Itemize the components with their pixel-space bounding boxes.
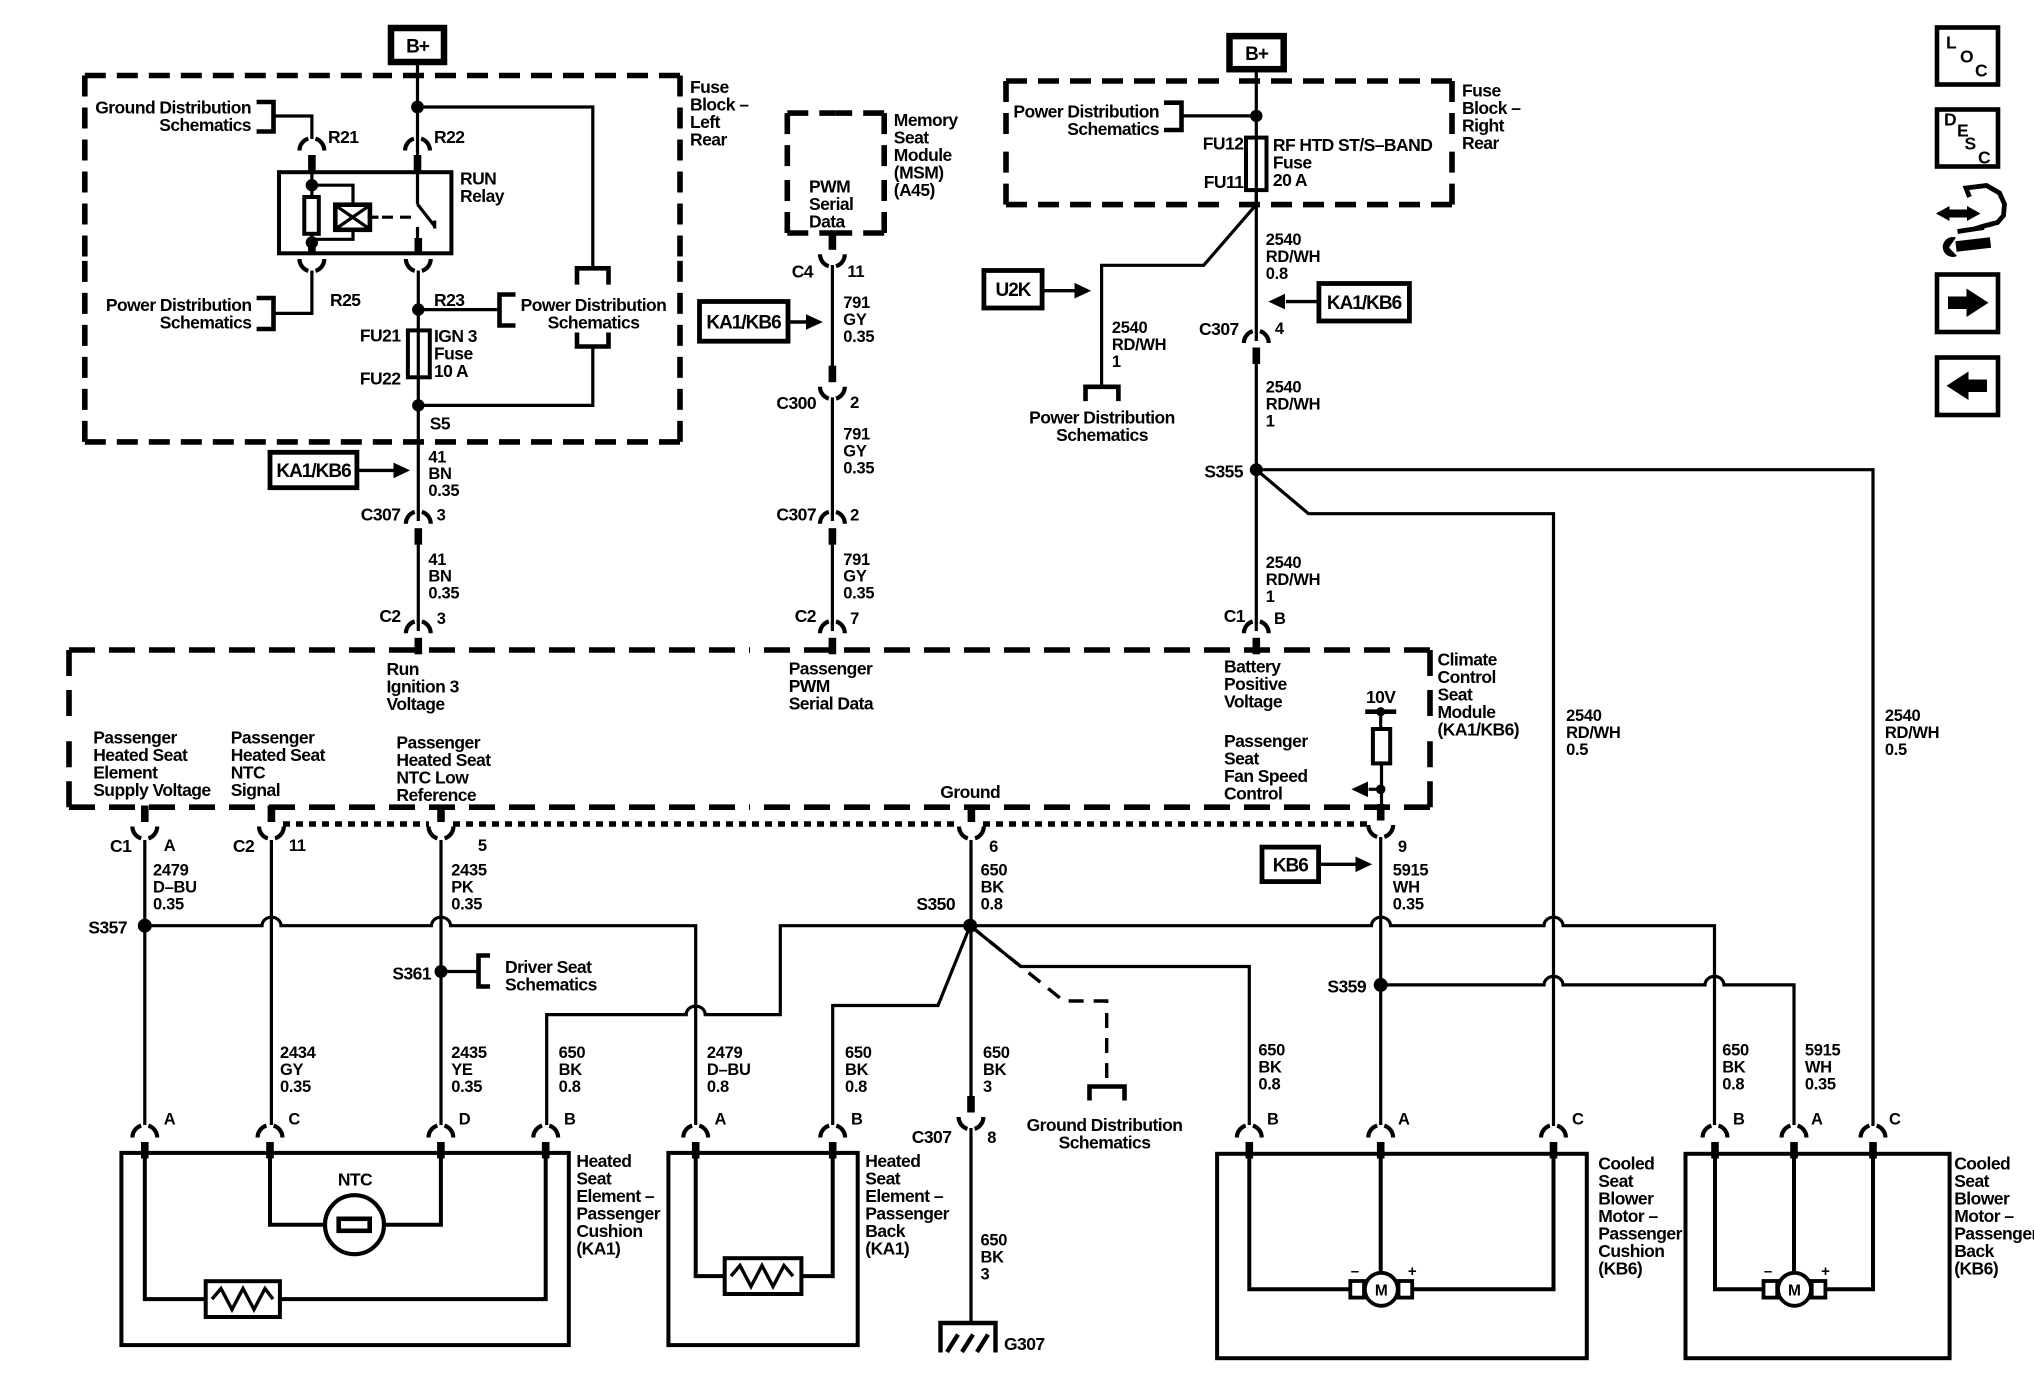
svg-text:S5: S5 (430, 414, 451, 434)
wire bracket to node (1182, 114, 1257, 117)
svg-text:650: 650 (559, 1044, 586, 1062)
connector C300 pin 2 (820, 366, 845, 399)
svg-text:R23: R23 (434, 290, 465, 310)
bracket ref power distribution (1164, 103, 1182, 130)
svg-text:B+: B+ (406, 37, 430, 58)
splice S357 (138, 919, 152, 933)
svg-text:0.35: 0.35 (451, 1078, 482, 1096)
connector R23 (406, 238, 431, 271)
svg-text:R22: R22 (434, 127, 465, 147)
svg-text:650: 650 (983, 1044, 1010, 1062)
arrow U2K to wire (1042, 289, 1076, 292)
cooled seat blower motor cushion box (1217, 1154, 1587, 1358)
svg-text:(A45): (A45) (894, 180, 935, 200)
bracket ref power distribution (bottom) (577, 333, 609, 347)
splice box KA1/KB6 right (1319, 284, 1410, 322)
svg-text:RD/WH: RD/WH (1266, 571, 1320, 589)
svg-text:BK: BK (845, 1061, 869, 1079)
connector box2 pin B (820, 1126, 845, 1159)
svg-text:B: B (851, 1111, 863, 1129)
svg-text:WH: WH (1393, 879, 1420, 897)
svg-text:7: 7 (850, 610, 859, 628)
svg-text:5915: 5915 (1805, 1042, 1841, 1060)
svg-text:2435: 2435 (451, 1044, 487, 1062)
svg-text:R21: R21 (328, 127, 359, 147)
svg-text:1: 1 (1266, 588, 1275, 606)
svg-text:C: C (1889, 1111, 1901, 1129)
connector R25 (300, 238, 325, 271)
svg-text:S: S (1965, 134, 1976, 154)
svg-text:11: 11 (847, 263, 864, 281)
splice S361 (435, 965, 448, 978)
svg-text:Schematics: Schematics (548, 313, 641, 333)
bracket ref ground distribution (1090, 1087, 1125, 1101)
svg-text:Signal: Signal (231, 780, 280, 800)
svg-text:A: A (715, 1111, 727, 1129)
wire coil parallel branch (312, 185, 353, 205)
memory seat module dashed box (787, 110, 835, 116)
wire C2 11 down to box1 C (270, 840, 273, 1125)
wire C307 to C2 (831, 544, 834, 631)
svg-text:–: – (1351, 1263, 1359, 1280)
svg-text:0.8: 0.8 (1722, 1076, 1744, 1094)
svg-text:2435: 2435 (451, 862, 487, 880)
svg-text:C2: C2 (795, 606, 817, 626)
svg-text:Schematics: Schematics (1067, 119, 1160, 139)
svg-text:10 A: 10 A (434, 361, 469, 381)
svg-text:L: L (1946, 33, 1957, 53)
node (306, 179, 318, 191)
svg-text:S355: S355 (1204, 462, 1243, 482)
svg-text:B: B (564, 1111, 576, 1129)
svg-text:0.35: 0.35 (1393, 896, 1424, 914)
wire S355 diag to box3 C (1256, 470, 1553, 1126)
svg-text:KA1/KB6: KA1/KB6 (706, 313, 781, 334)
svg-text:(KB6): (KB6) (1954, 1259, 1998, 1279)
svg-text:D–BU: D–BU (707, 1061, 751, 1079)
connector R22 (405, 139, 430, 172)
svg-text:2479: 2479 (153, 862, 189, 880)
svg-text:5915: 5915 (1393, 862, 1429, 880)
connector box4 pin B (1703, 1126, 1728, 1159)
svg-text:C2: C2 (379, 606, 401, 626)
connector box4 pin A (1782, 1126, 1807, 1159)
wire ground box1 B to S350 (547, 926, 971, 1125)
svg-text:0.8: 0.8 (845, 1078, 867, 1096)
svg-text:RD/WH: RD/WH (1885, 724, 1939, 742)
svg-text:2540: 2540 (1266, 554, 1302, 572)
relay coil branch wire (310, 172, 313, 197)
wire fuse to C307 (1255, 190, 1258, 341)
svg-text:(KA1): (KA1) (576, 1239, 620, 1259)
svg-text:BK: BK (1722, 1059, 1746, 1077)
svg-text:650: 650 (981, 1232, 1008, 1250)
svg-text:791: 791 (843, 551, 870, 569)
svg-text:D: D (459, 1111, 471, 1129)
svg-text:BK: BK (981, 1249, 1005, 1267)
svg-text:Reference: Reference (396, 785, 476, 805)
relay actuator dashed link (370, 216, 379, 219)
svg-text:0.8: 0.8 (1258, 1076, 1280, 1094)
arrow KA1/KB6 left (1286, 300, 1319, 303)
svg-text:U2K: U2K (995, 280, 1031, 301)
svg-text:791: 791 (843, 426, 870, 444)
svg-text:2540: 2540 (1266, 379, 1302, 397)
svg-text:BK: BK (981, 879, 1005, 897)
svg-text:S357: S357 (88, 918, 127, 938)
node below fuse (412, 399, 424, 411)
svg-text:0.35: 0.35 (451, 896, 482, 914)
motor blower back (1764, 1281, 1778, 1298)
wire ground S350 to box3 B (970, 926, 1249, 1125)
connector C1 pin A (module) (132, 806, 157, 839)
arrow to wire (788, 320, 808, 323)
svg-text:Voltage: Voltage (1224, 692, 1283, 712)
arrow KB6 to wire (1319, 863, 1357, 866)
svg-text:2540: 2540 (1266, 231, 1302, 249)
fuse FU21 IGN3 (408, 330, 430, 377)
svg-text:BN: BN (428, 465, 451, 483)
svg-text:0.35: 0.35 (280, 1078, 311, 1096)
svg-text:FU22: FU22 (360, 369, 401, 389)
svg-text:Supply Voltage: Supply Voltage (93, 780, 211, 800)
resistor heater element back (725, 1258, 802, 1294)
svg-text:FU11: FU11 (1204, 172, 1244, 192)
svg-text:GY: GY (843, 311, 867, 329)
svg-text:+: + (1821, 1263, 1830, 1280)
connector box3 pin C (1541, 1126, 1566, 1159)
svg-text:C1: C1 (110, 836, 132, 856)
wire bracket to R21 (274, 116, 312, 139)
svg-text:Data: Data (809, 212, 846, 232)
svg-text:PK: PK (451, 879, 474, 897)
icon box LOC (1937, 28, 1998, 85)
svg-text:C: C (1975, 61, 1988, 81)
SEC7 bottom boxes (121, 1111, 2034, 1359)
node arrow fan speed control (1376, 785, 1386, 795)
svg-text:0.35: 0.35 (843, 460, 874, 478)
svg-text:0.5: 0.5 (1566, 741, 1588, 759)
connector C307 pin 3 (406, 512, 431, 545)
svg-text:4: 4 (1275, 320, 1285, 338)
svg-text:B+: B+ (1245, 44, 1269, 65)
SEC1 top-left (85, 28, 749, 654)
svg-text:A: A (164, 837, 176, 855)
svg-text:1: 1 (1112, 353, 1121, 371)
connector C307 pin 8 (959, 1096, 984, 1129)
svg-text:0.35: 0.35 (843, 328, 874, 346)
svg-text:C307: C307 (361, 505, 401, 525)
svg-text:(KA1): (KA1) (865, 1239, 909, 1259)
connector C307 pin 2 (820, 512, 845, 545)
svg-text:3: 3 (981, 1266, 990, 1284)
relay coil X-box (335, 205, 370, 230)
svg-text:KB6: KB6 (1273, 856, 1308, 877)
relay RUN box (279, 172, 451, 253)
wire C1A down to box1 A (143, 840, 146, 1125)
svg-text:C: C (288, 1111, 300, 1129)
wire C4 to C300 (831, 265, 834, 366)
wire element to B (801, 1159, 832, 1277)
bracket ref driver seat (479, 956, 491, 987)
connector R21 (300, 139, 325, 172)
node (1250, 110, 1262, 122)
wire node to PDS bracket (418, 308, 499, 311)
svg-text:650: 650 (1722, 1042, 1749, 1060)
wire ground box2 B to S350 (833, 926, 971, 1125)
svg-text:KA1/KB6: KA1/KB6 (1327, 293, 1402, 314)
svg-text:Voltage: Voltage (387, 694, 446, 714)
wire motor to C (1412, 1159, 1553, 1290)
wire B to motor (1715, 1159, 1764, 1290)
svg-text:2479: 2479 (707, 1044, 743, 1062)
wire diagonal branch (1102, 205, 1257, 387)
connector pin 9 fan control (module) (1368, 804, 1393, 837)
bracket ref power distribution (left of text) (500, 295, 516, 326)
svg-text:20 A: 20 A (1273, 170, 1308, 190)
heated seat element passenger cushion box (121, 1153, 568, 1345)
svg-text:0.8: 0.8 (559, 1078, 581, 1096)
svg-text:S359: S359 (1327, 977, 1366, 997)
wire ground dashed to ground distribution (970, 926, 1106, 1085)
svg-text:6: 6 (989, 838, 998, 856)
connector pin 6 ground (module) (959, 806, 984, 839)
wire motor to C (1826, 1159, 1874, 1290)
svg-text:Serial Data: Serial Data (789, 694, 874, 714)
svg-text:BK: BK (559, 1061, 583, 1079)
svg-text:B: B (1267, 1111, 1279, 1129)
connector C2 pin 3 (406, 621, 431, 654)
svg-text:5: 5 (478, 837, 487, 855)
svg-text:RD/WH: RD/WH (1266, 248, 1320, 266)
svg-text:Ground: Ground (940, 782, 1000, 802)
module climate control seat dashed box (69, 647, 750, 653)
fuse block right rear dashed box (1006, 78, 1229, 84)
cooled seat blower motor back box (1686, 1154, 1950, 1358)
wire S357 bus to box2 A (145, 917, 696, 1125)
svg-text:RD/WH: RD/WH (1566, 724, 1620, 742)
svg-text:BK: BK (1258, 1059, 1282, 1077)
svg-text:0.8: 0.8 (707, 1078, 729, 1096)
wire B+ down (416, 62, 419, 172)
splice S355 (1250, 463, 1263, 476)
svg-text:C307: C307 (776, 505, 816, 525)
svg-text:0.8: 0.8 (1266, 265, 1288, 283)
wire B to motor (1249, 1159, 1350, 1290)
connector pin 5 (module) (429, 806, 454, 839)
svg-text:NTC: NTC (338, 1170, 373, 1190)
svg-text:C: C (1572, 1111, 1584, 1129)
svg-text:GY: GY (280, 1061, 304, 1079)
svg-text:41: 41 (428, 551, 446, 569)
svg-text:C307: C307 (912, 1127, 952, 1147)
svg-text:G307: G307 (1004, 1334, 1045, 1354)
svg-text:C4: C4 (792, 262, 814, 282)
svg-text:FU21: FU21 (360, 326, 401, 346)
svg-text:BN: BN (428, 568, 451, 586)
fuse block left rear dashed box (85, 73, 382, 79)
wire B+ down (1255, 66, 1258, 205)
svg-text:11: 11 (289, 837, 306, 855)
SEC2 top-middle (700, 110, 959, 654)
svg-text:S361: S361 (392, 964, 431, 984)
wire S359 to box4 A (1381, 976, 1794, 1125)
svg-text:2540: 2540 (1885, 707, 1921, 725)
svg-text:A: A (164, 1111, 176, 1129)
wire to C2 (417, 544, 420, 631)
motor blower cushion (1350, 1281, 1364, 1298)
svg-text:Rear: Rear (690, 130, 727, 150)
svg-text:C2: C2 (233, 836, 255, 856)
ground G307 (941, 1323, 996, 1353)
bracket ref power distribution left (257, 298, 274, 329)
svg-text:B: B (1274, 610, 1286, 628)
icon box DESC (1937, 110, 1998, 167)
wire A to heater element (145, 1159, 206, 1300)
svg-text:8: 8 (987, 1129, 996, 1147)
svg-text:0.8: 0.8 (981, 896, 1003, 914)
svg-text:D–BU: D–BU (153, 879, 197, 897)
svg-text:FU12: FU12 (1203, 134, 1244, 154)
svg-text:B: B (1733, 1111, 1745, 1129)
heated seat element passenger back box (668, 1153, 857, 1345)
node junction at B+ wire (411, 101, 424, 114)
svg-text:Schematics: Schematics (505, 975, 598, 995)
svg-text:BK: BK (983, 1061, 1007, 1079)
wire bracket down to fuse node (418, 347, 593, 406)
svg-text:C307: C307 (1199, 319, 1239, 339)
resistor heater element cushion (206, 1281, 280, 1317)
connector C2 pin 11 (module) (259, 806, 284, 839)
svg-text:650: 650 (845, 1044, 872, 1062)
svg-text:650: 650 (981, 862, 1008, 880)
bracket ref ground distribution (257, 102, 274, 132)
wire element to B (280, 1159, 546, 1300)
wire ground bus S350 to box4 B (970, 917, 1714, 1125)
connector box1 pin D (429, 1126, 454, 1159)
svg-text:Schematics: Schematics (1056, 425, 1149, 445)
svg-text:0.35: 0.35 (428, 482, 459, 500)
wire NTC to D (382, 1159, 441, 1225)
node (306, 236, 318, 248)
svg-text:A: A (1811, 1111, 1823, 1129)
svg-text:Rear: Rear (1462, 133, 1499, 153)
SEC3 top-right (984, 36, 1939, 1126)
connector box1 pin A (132, 1126, 157, 1159)
svg-text:M: M (1788, 1283, 1801, 1300)
wire C307 8 down to G307 (969, 1128, 972, 1322)
svg-text:2: 2 (850, 394, 859, 412)
svg-text:1: 1 (1266, 413, 1275, 431)
bracket ref power distribution (below) (1086, 387, 1119, 401)
svg-text:0.5: 0.5 (1885, 741, 1907, 759)
svg-text:2540: 2540 (1566, 707, 1602, 725)
svg-text:(KB6): (KB6) (1598, 1259, 1642, 1279)
svg-text:791: 791 (843, 294, 870, 312)
splice box U2K (984, 271, 1042, 309)
wire C307 to S355 (1255, 364, 1258, 631)
arrow KA1/KB6 to wire (357, 469, 394, 472)
fuse FU12 RF HTD (1246, 138, 1267, 191)
icon arrows-wrench (1948, 186, 2005, 247)
icon box arrow right (1937, 275, 1998, 333)
svg-text:Schematics: Schematics (1059, 1133, 1152, 1153)
wire pin5 down to box1 D (439, 840, 442, 1125)
svg-text:+: + (1408, 1263, 1417, 1280)
svg-text:YE: YE (451, 1061, 473, 1079)
wire R23 down (417, 271, 420, 407)
svg-text:41: 41 (428, 449, 446, 467)
svg-text:3: 3 (437, 507, 446, 525)
svg-text:9: 9 (1398, 838, 1407, 856)
wire C to NTC (270, 1159, 327, 1225)
wire S361 to bracket (441, 970, 479, 973)
node (412, 303, 424, 315)
connector box3 pin B (1237, 1126, 1262, 1159)
wire A to motor top (1792, 1159, 1796, 1273)
svg-text:GY: GY (843, 568, 867, 586)
svg-text:Relay: Relay (460, 186, 505, 206)
connector box3 pin A (1368, 1126, 1393, 1159)
connector C2 pin 7 (820, 621, 845, 654)
svg-text:KA1/KB6: KA1/KB6 (276, 461, 351, 482)
svg-text:3: 3 (983, 1078, 992, 1096)
splice box KA1/KB6 (700, 302, 789, 342)
svg-text:S350: S350 (916, 894, 955, 914)
SEC5 module (69, 650, 1519, 882)
svg-text:C: C (1978, 148, 1991, 168)
splice S359 (1374, 978, 1388, 992)
B+ power symbol (left) (391, 28, 444, 62)
wire S5 down to C307 (417, 405, 420, 521)
relay coil resistor (304, 197, 319, 234)
wire R25 to bracket (274, 271, 312, 314)
SEC4 right icons (1936, 28, 2005, 416)
bracket ref power distribution (top) (577, 268, 609, 284)
connector C4 pin 11 (820, 233, 845, 266)
icon box arrow left (1937, 358, 1998, 416)
wire pin6 down to S350 (969, 840, 972, 1097)
svg-text:2434: 2434 (280, 1044, 317, 1062)
svg-text:2: 2 (850, 507, 859, 525)
svg-text:M: M (1375, 1283, 1388, 1300)
svg-text:Control: Control (1224, 784, 1282, 804)
svg-text:D: D (1944, 110, 1956, 130)
connector box1 pin B (533, 1126, 558, 1159)
module connector dotted line (283, 821, 429, 827)
svg-text:R25: R25 (330, 290, 361, 310)
svg-text:650: 650 (1258, 1042, 1285, 1060)
svg-text:(KA1/KB6): (KA1/KB6) (1438, 720, 1520, 740)
connector box1 pin C (258, 1126, 283, 1159)
wire C300 to C307 (831, 397, 834, 521)
SEC6 middle wiring (88, 837, 1840, 1354)
svg-text:0.35: 0.35 (428, 584, 459, 602)
svg-text:0.35: 0.35 (1805, 1076, 1836, 1094)
svg-text:GY: GY (843, 443, 867, 461)
svg-text:RD/WH: RD/WH (1112, 336, 1166, 354)
wire junction to right (418, 107, 593, 267)
svg-text:10V: 10V (1366, 687, 1396, 707)
B+ power symbol (right) (1230, 36, 1284, 69)
svg-text:O: O (1960, 47, 1973, 67)
svg-text:3: 3 (437, 610, 446, 628)
svg-text:RD/WH: RD/WH (1266, 396, 1320, 414)
svg-text:0.35: 0.35 (843, 584, 874, 602)
connector C307 pin 4 (1244, 331, 1269, 364)
svg-text:C1: C1 (1224, 606, 1246, 626)
relay switch (416, 172, 419, 204)
